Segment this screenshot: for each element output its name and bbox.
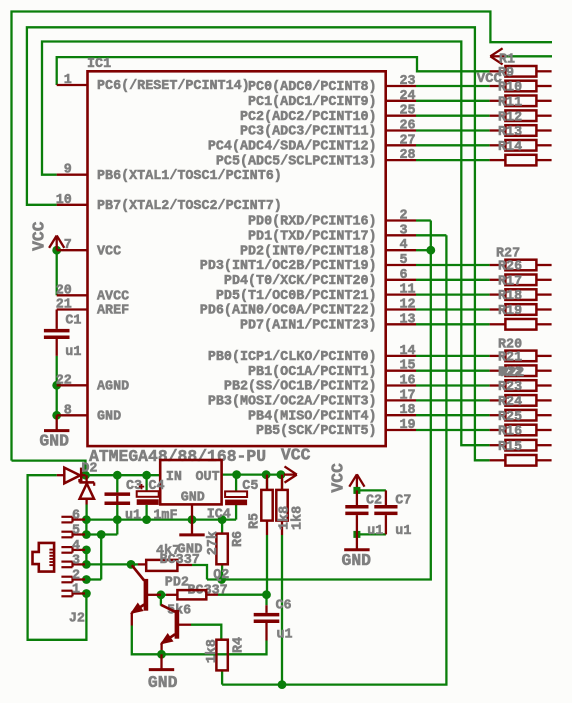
svg-text:25: 25 xyxy=(400,104,416,119)
svg-text:PB1(OC1A/PCINT1): PB1(OC1A/PCINT1) xyxy=(248,365,377,380)
svg-text:PB4(MISO/PCINT4): PB4(MISO/PCINT4) xyxy=(248,409,377,424)
junction GND pin8 xyxy=(52,411,61,420)
junction square bottom of C2 xyxy=(353,531,360,538)
wire 5k6 left lead xyxy=(166,594,177,596)
pin 12 PD6(AIN0/OC0A/PCINT22) stub xyxy=(200,298,416,319)
diode D2 horizontal xyxy=(57,468,86,484)
svg-text:15: 15 xyxy=(400,359,416,374)
svg-text:OUT: OUT xyxy=(196,470,220,485)
pin 15 PB1(OC1A/PCINT1) stub xyxy=(248,359,416,380)
svg-text:1k8: 1k8 xyxy=(205,639,220,663)
wire C4 lower lead to GND rail xyxy=(145,505,147,520)
svg-text:18: 18 xyxy=(400,403,416,418)
svg-text:R21: R21 xyxy=(498,351,522,366)
J2 pin 6 xyxy=(61,509,85,524)
svg-text:Q2: Q2 xyxy=(213,568,229,583)
wire GND riser from J2 pin5 row up to GND rail xyxy=(116,520,118,535)
junction J2 pin1 xyxy=(82,589,91,598)
pin 14 PB0(ICP1/CLKO/PCINT0) stub xyxy=(208,344,416,365)
resistor R25 xyxy=(490,410,552,425)
wire pin10 net: nested loop to far-right lower resistor xyxy=(27,27,490,460)
svg-text:VCC: VCC xyxy=(281,445,311,464)
svg-text:2: 2 xyxy=(400,209,408,224)
junction Q1 emitter GND stub xyxy=(157,650,166,659)
svg-text:PC6(/RESET/PCINT14): PC6(/RESET/PCINT14) xyxy=(97,79,250,94)
wire C3 lower lead to GND rail xyxy=(116,505,118,520)
resistor R24 xyxy=(490,395,552,410)
svg-text:AGND: AGND xyxy=(97,380,129,395)
svg-text:AVCC: AVCC xyxy=(97,290,129,305)
svg-text:PD7(AIN1/PCINT23): PD7(AIN1/PCINT23) xyxy=(240,319,377,334)
svg-text:R6: R6 xyxy=(231,531,246,547)
junction Q2 collector node xyxy=(127,560,136,569)
wire pin 5 to resistor xyxy=(416,264,490,266)
svg-text:R24: R24 xyxy=(498,395,522,410)
wire pin9 net: nested loop to resistor R15 xyxy=(42,42,490,446)
junction INT0/RXD xyxy=(426,246,435,255)
resistor R (unlabeled bottom group) xyxy=(490,455,552,466)
wire resistor R5 upper lead from VCC rail xyxy=(266,475,268,490)
wire pin 15 to resistor xyxy=(416,370,490,372)
svg-text:R22: R22 xyxy=(500,366,524,381)
svg-text:GND: GND xyxy=(181,490,205,505)
wire Q1 emitter lead xyxy=(131,613,133,626)
pin 23 PC0(ADC0/PCINT8) stub xyxy=(248,74,416,95)
svg-text:C5: C5 xyxy=(242,479,258,494)
pin 22 AGND stub xyxy=(56,373,129,394)
pin 3 PD1(TXD/PCINT17) stub xyxy=(248,223,416,244)
svg-text:C7: C7 xyxy=(395,494,411,509)
pin 10 PB7(XTAL2/TOSC2/PCINT7) stub xyxy=(56,193,282,214)
ground below Q2 emitter xyxy=(149,654,174,669)
svg-text:9: 9 xyxy=(64,163,72,178)
svg-text:2: 2 xyxy=(72,569,80,584)
wire Q2 base node to 5k6 xyxy=(161,594,166,596)
resistor R (unlabeled mid group) xyxy=(490,319,552,330)
svg-text:IN: IN xyxy=(166,470,182,485)
svg-text:VCC: VCC xyxy=(477,71,503,87)
resistor R26 xyxy=(490,260,552,275)
svg-text:J2: J2 xyxy=(69,611,85,626)
wire R5 lower lead down to C6 node xyxy=(266,535,268,595)
resistor R22 xyxy=(490,365,552,380)
wire pin 24 to resistor xyxy=(416,100,490,102)
svg-text:IC1: IC1 xyxy=(87,57,111,72)
wire outer loop bottom: left rail to diode D2 cathode junction xyxy=(12,461,86,471)
svg-text:5: 5 xyxy=(400,253,408,268)
junction C4 input rail xyxy=(142,471,151,480)
wire R4 bottom lead to TXD bottom rail xyxy=(221,670,223,684)
pin 8 GND stub xyxy=(57,403,121,424)
junction C6 top node xyxy=(262,590,271,599)
svg-text:19: 19 xyxy=(400,418,416,433)
wire C5 lower lead to GND rail xyxy=(235,505,237,520)
resistor R6 xyxy=(216,534,227,565)
J2 pin 1 xyxy=(61,583,85,598)
svg-text:R5: R5 xyxy=(248,513,263,529)
pin 25 PC2(ADC2/PCINT10) stub xyxy=(240,104,416,125)
svg-text:u1: u1 xyxy=(65,345,81,360)
pin 26 PC3(ADC3/PCINT11) stub xyxy=(240,119,416,140)
wire C6 bottom lead xyxy=(265,623,267,641)
svg-text:PB0(ICP1/CLKO/PCINT0): PB0(ICP1/CLKO/PCINT0) xyxy=(208,350,377,365)
resistor R18 xyxy=(490,289,552,304)
svg-text:R19: R19 xyxy=(498,304,522,319)
wire zener lower lead to J2 pin6 junction xyxy=(85,505,87,520)
pin 6 PD4(T0/XCK/PCINT20) stub xyxy=(224,268,416,289)
svg-text:R13: R13 xyxy=(498,125,522,140)
VCC supply arrow at C2/C7 xyxy=(349,474,364,490)
svg-text:1k8: 1k8 xyxy=(291,506,306,530)
pin 1 PC6(/RESET/PCINT14) stub xyxy=(57,73,250,94)
pin 16 PB2(SS/OC1B/PCINT2) stub xyxy=(224,374,416,395)
svg-text:ATMEGA48/88/168-PU: ATMEGA48/88/168-PU xyxy=(89,447,266,466)
resistor R12 xyxy=(490,110,552,125)
resistor R (unlabeled top group) xyxy=(490,155,552,166)
svg-text:VCC: VCC xyxy=(30,221,49,251)
wire R5 bottom lead xyxy=(266,521,268,535)
wire resistor R3 upper lead from VCC rail xyxy=(281,475,283,490)
svg-text:VCC: VCC xyxy=(97,244,121,259)
wire VCC net at IC pin7 down to pin20 AVCC xyxy=(56,250,58,295)
pin 28 PC5(ADC5/SCLPCINT13) stub xyxy=(216,148,416,169)
junction J2 pin5 xyxy=(82,530,91,539)
pin 20 AVCC stub xyxy=(56,283,129,304)
svg-text:PB6(XTAL1/TOSC1/PCINT6): PB6(XTAL1/TOSC1/PCINT6) xyxy=(97,169,282,184)
wire C6 top lead green part xyxy=(265,595,267,606)
svg-text:24: 24 xyxy=(400,89,416,104)
ground below regulator xyxy=(179,520,204,535)
svg-text:27: 27 xyxy=(400,133,416,148)
svg-text:VCC: VCC xyxy=(329,463,348,493)
svg-text:27k: 27k xyxy=(206,531,221,555)
svg-text:26: 26 xyxy=(400,119,416,134)
junction Q2 base node xyxy=(157,590,166,599)
wire C1 bottom lead xyxy=(56,339,58,356)
capacitor C7 xyxy=(374,505,397,515)
svg-text:R17: R17 xyxy=(498,274,522,289)
J2 pin 3 xyxy=(61,553,85,568)
svg-text:u1: u1 xyxy=(367,524,383,539)
junction J2 pin6 xyxy=(82,515,91,524)
svg-text:PD4(T0/XCK/PCINT20): PD4(T0/XCK/PCINT20) xyxy=(224,274,377,289)
svg-text:R16: R16 xyxy=(498,425,522,440)
wire VCC block cap link bottom xyxy=(357,533,386,535)
resistor R11 xyxy=(490,95,552,110)
resistor R2 5k6 horizontal xyxy=(177,590,206,599)
svg-text:R4: R4 xyxy=(232,637,247,653)
wire Q2 emitter lead down to rail xyxy=(160,643,162,655)
svg-text:C6: C6 xyxy=(276,599,292,614)
junction C3 input rail xyxy=(113,471,122,480)
junction C5 VCC rail xyxy=(232,470,241,479)
svg-text:PD0(RXD/PCINT16): PD0(RXD/PCINT16) xyxy=(248,215,377,230)
wire Q1 emitter rail to C6 bottom xyxy=(132,626,267,655)
wire Q2 base node down to Q1 collector xyxy=(160,595,162,606)
pin 19 PB5(SCK/PCINT5) stub xyxy=(256,418,416,439)
connector J2 teeth xyxy=(49,550,53,566)
svg-text:10: 10 xyxy=(56,193,72,208)
svg-text:PC1(ADC1/PCINT9): PC1(ADC1/PCINT9) xyxy=(248,95,377,110)
resistor R13 xyxy=(490,125,552,140)
wire 5k6 resistor to C6 node xyxy=(218,594,267,596)
svg-text:1: 1 xyxy=(72,583,80,598)
wire C2 bottom lead xyxy=(356,515,358,534)
wire pin 17 to resistor xyxy=(416,399,490,401)
svg-text:PB7(XTAL2/TOSC2/PCINT7): PB7(XTAL2/TOSC2/PCINT7) xyxy=(97,199,282,214)
wire J2 pin3 net to transistor Q2 collector node xyxy=(86,563,131,565)
svg-text:R25: R25 xyxy=(498,410,522,425)
resistor R4 xyxy=(216,640,227,671)
wire base resistor to RXD rail elbow xyxy=(192,565,207,580)
svg-text:1mF: 1mF xyxy=(153,508,177,523)
resistor R7 4k7 horizontal xyxy=(146,560,177,571)
svg-text:28: 28 xyxy=(400,148,416,163)
wire C2 top lead xyxy=(356,490,358,505)
svg-text:PC4(ADC4/SDA/PCINT12): PC4(ADC4/SDA/PCINT12) xyxy=(208,140,377,155)
resistor R21 xyxy=(490,351,552,366)
pin 17 PB3(MOSI/OC2A/PCINT3) stub xyxy=(208,388,416,409)
transistor Q2 BC337 lower xyxy=(161,605,191,644)
wire pin 27 to resistor xyxy=(416,144,490,146)
wire pin 6 to resistor xyxy=(416,279,490,281)
svg-text:4: 4 xyxy=(72,539,80,554)
wire pin 28 to resistor xyxy=(416,159,490,161)
svg-text:R11: R11 xyxy=(498,95,522,110)
wire R3 top lead xyxy=(281,475,283,490)
wire Q2 base resistor R4 riser xyxy=(191,625,221,640)
wire pin 13 to resistor xyxy=(416,323,490,325)
svg-text:R12: R12 xyxy=(498,110,522,125)
svg-text:PB3(MOSI/OC2A/PCINT3): PB3(MOSI/OC2A/PCINT3) xyxy=(208,395,377,410)
svg-text:PD2(INT0/PCINT18): PD2(INT0/PCINT18) xyxy=(240,244,377,259)
junction J2 pin2 xyxy=(82,575,91,584)
pin 5 PD3(INT1/OC2B/PCINT19) stub xyxy=(200,253,416,274)
pin 21 AREF stub xyxy=(56,298,129,319)
wire INT0 pin4 junction to RXD riser xyxy=(416,249,431,251)
pin 13 PD7(AIN1/PCINT23) stub xyxy=(240,312,416,333)
wire regulator output VCC rail xyxy=(222,473,284,475)
wire pin 19 to resistor xyxy=(416,429,490,431)
wire 100n cap C3 upper lead xyxy=(116,475,118,492)
junction square top of C2 xyxy=(353,487,360,494)
svg-text:14: 14 xyxy=(400,344,416,359)
transistor Q1 BC337 xyxy=(132,565,161,613)
junction AGND pin22 xyxy=(52,381,61,390)
svg-text:PB5(SCK/PCINT5): PB5(SCK/PCINT5) xyxy=(256,424,377,439)
wire pin 26 to resistor xyxy=(416,129,490,131)
wire VCC stub top right xyxy=(503,55,552,57)
pin 24 PC1(ADC1/PCINT9) stub xyxy=(248,89,416,110)
wire R5 top lead xyxy=(266,475,268,490)
wire RXD rail from IC pin2 down and across xyxy=(207,221,431,580)
svg-text:6: 6 xyxy=(400,268,408,283)
svg-text:6: 6 xyxy=(72,509,80,524)
svg-text:R14: R14 xyxy=(498,140,522,155)
junction R6 GND rail xyxy=(218,515,227,524)
capacitor C5 (polarized) xyxy=(225,491,247,505)
svg-text:23: 23 xyxy=(400,74,416,89)
svg-text:R18: R18 xyxy=(498,289,522,304)
wire AREF pin21 lead down to C1 xyxy=(56,310,58,329)
capacitor C3 xyxy=(105,492,131,505)
wire pin 23 to resistor xyxy=(416,85,490,87)
wire R3 bottom lead xyxy=(281,521,283,535)
VCC supply arrow right of regulator (points right) xyxy=(284,466,297,482)
svg-text:22: 22 xyxy=(56,373,72,388)
wire pin 12 to resistor xyxy=(416,308,490,310)
svg-text:8: 8 xyxy=(64,403,72,418)
svg-text:C4: C4 xyxy=(149,479,165,494)
svg-text:R1: R1 xyxy=(499,52,515,67)
resistor R16 xyxy=(490,425,552,440)
wire J2 pin1 net loop to diode D2 anode xyxy=(28,475,87,640)
wire C6 top lead xyxy=(265,605,267,613)
svg-text:PC5(ADC5/SCLPCINT13): PC5(ADC5/SCLPCINT13) xyxy=(216,154,377,169)
svg-text:3: 3 xyxy=(400,223,408,238)
wire 5k6 right lead xyxy=(206,594,218,596)
junction regulator GND rail xyxy=(188,515,197,524)
pin 4 PD2(INT0/PCINT18) stub xyxy=(240,238,416,259)
svg-text:IC4: IC4 xyxy=(207,508,231,523)
wire J2 pin2 row to GND drop xyxy=(86,578,101,580)
VCC supply arrow at pin7 xyxy=(49,236,64,251)
resistor R19 xyxy=(490,304,552,319)
wire C1 lower lead to AGND pin22 and GND pin8 xyxy=(56,356,58,415)
svg-text:PD6(AIN0/OC0A/PCINT22): PD6(AIN0/OC0A/PCINT22) xyxy=(200,304,377,319)
junction diode D2 cathode xyxy=(81,471,90,480)
junction J2 pin3 xyxy=(82,560,91,569)
wire pin1 /RESET net to pull-up resistor R9 xyxy=(57,57,490,85)
svg-text:AREF: AREF xyxy=(97,304,129,319)
pin 7 VCC stub xyxy=(57,238,121,259)
zener diode vertical xyxy=(79,475,94,504)
resistor R9 xyxy=(490,66,552,81)
pin 18 PB4(MISO/PCINT4) stub xyxy=(248,403,416,424)
wire Q2 collector node to base resistor xyxy=(131,563,138,565)
svg-text:12: 12 xyxy=(400,298,416,313)
svg-text:GND: GND xyxy=(97,410,121,425)
svg-text:u1: u1 xyxy=(125,508,141,523)
svg-text:PD2: PD2 xyxy=(165,575,189,590)
svg-text:R23: R23 xyxy=(498,380,522,395)
svg-text:GND: GND xyxy=(148,673,178,692)
wire pin2 stub to RXD riser xyxy=(416,219,431,221)
svg-text:7: 7 xyxy=(64,238,72,253)
wire C4 upper lead xyxy=(145,475,147,491)
wire C3 plates leads xyxy=(116,496,118,502)
J2 pin 4 xyxy=(61,539,85,554)
junction R6 on RXD rail xyxy=(217,575,226,584)
junction R3 VCC rail xyxy=(277,470,286,479)
wire regulator GND pin down xyxy=(191,504,193,519)
ground below C2/C7 xyxy=(344,534,369,549)
pin 11 PD5(T1/OC0B/PCINT21) stub xyxy=(216,283,416,304)
svg-text:PC0(ADC0/PCINT8): PC0(ADC0/PCINT8) xyxy=(248,80,377,95)
wire pin 11 to resistor xyxy=(416,293,490,295)
resistor R3 xyxy=(276,490,287,521)
VCC supply arrow top right xyxy=(490,48,506,64)
capacitor C4 (polarized) xyxy=(137,491,159,505)
svg-text:PB2(SS/OC1B/PCINT2): PB2(SS/OC1B/PCINT2) xyxy=(224,380,377,395)
svg-text:1: 1 xyxy=(64,73,72,88)
wire pin 25 to resistor xyxy=(416,115,490,117)
J2 pin 5 xyxy=(61,524,85,539)
junction J2 pin4 xyxy=(82,546,91,555)
wire 4k7 right lead xyxy=(177,564,192,566)
wire J2 pin5 row to GND riser xyxy=(86,533,117,535)
pin 2 PD0(RXD/PCINT16) stub xyxy=(248,209,416,230)
wire GND drop from pin5 row to pin2 row xyxy=(100,535,102,580)
voltage regulator IC4 box xyxy=(160,460,221,504)
wire C5 upper lead xyxy=(235,475,237,492)
svg-text:5: 5 xyxy=(72,524,80,539)
svg-text:PD3(INT1/OC2B/PCINT19): PD3(INT1/OC2B/PCINT19) xyxy=(200,259,377,274)
resistor R17 xyxy=(490,274,552,289)
wire pin 14 to resistor xyxy=(416,355,490,357)
wire R3 lower lead down to bottom TXD rail xyxy=(281,535,283,685)
svg-text:u1: u1 xyxy=(277,628,293,643)
svg-text:GND: GND xyxy=(39,431,69,450)
wire VCC block cap link top xyxy=(357,489,386,491)
svg-text:PD5(T1/OC0B/PCINT21): PD5(T1/OC0B/PCINT21) xyxy=(216,289,377,304)
svg-text:PC2(ADC2/PCINT10): PC2(ADC2/PCINT10) xyxy=(240,110,377,125)
svg-text:21: 21 xyxy=(56,298,72,313)
svg-text:R15: R15 xyxy=(498,440,522,455)
svg-text:20: 20 xyxy=(56,283,72,298)
junction GND drop pin5 row xyxy=(97,530,106,539)
svg-text:13: 13 xyxy=(400,312,416,327)
junction R5 VCC rail xyxy=(262,470,271,479)
wire pin 18 to resistor xyxy=(416,414,490,416)
resistor R23 xyxy=(490,380,552,395)
wire R6 upper lead from GND rail xyxy=(221,520,223,534)
svg-text:PD1(TXD/PCINT17): PD1(TXD/PCINT17) xyxy=(248,230,377,245)
resistor R5 xyxy=(261,490,272,521)
junction R3 on TXD bottom rail xyxy=(278,680,287,689)
wire regulator input rail from diode junction xyxy=(86,474,161,476)
wire 4k7 left lead xyxy=(138,563,146,565)
wire C7 bottom lead xyxy=(385,515,387,534)
pin 9 PB6(XTAL1/TOSC1/PCINT6) stub xyxy=(57,163,282,184)
junction C3 GND rail xyxy=(113,515,122,524)
wire C7 top lead xyxy=(385,490,387,505)
wire outer loop: IC1 pin1-area net top rail to top-right corner xyxy=(12,12,553,461)
svg-text:16: 16 xyxy=(400,374,416,389)
svg-text:GND: GND xyxy=(342,551,372,570)
junction VCC at pin7 xyxy=(52,246,61,255)
wire R6 lower lead to RXD rail xyxy=(221,564,223,579)
svg-text:u1: u1 xyxy=(395,524,411,539)
ground below pin8 xyxy=(44,415,69,430)
plus mark of C4 xyxy=(139,484,144,489)
J2 pin 2 xyxy=(61,569,85,584)
resistor R10 xyxy=(490,81,552,96)
svg-text:4: 4 xyxy=(400,238,408,253)
svg-text:BC337: BC337 xyxy=(160,553,200,568)
resistor R14 xyxy=(490,140,552,155)
resistor R15 xyxy=(490,440,552,455)
wire J2 pin6 to pin5 xyxy=(85,520,87,535)
svg-text:D2: D2 xyxy=(81,462,97,477)
pin 27 PC4(ADC4/SDA/PCINT12) stub xyxy=(208,133,416,154)
svg-text:3: 3 xyxy=(72,553,80,568)
wire pin 16 to resistor xyxy=(416,384,490,386)
junction C4 GND rail xyxy=(142,515,151,524)
capacitor C6 xyxy=(254,613,280,623)
wire TXD rail from IC pin3 down and across bottom xyxy=(222,235,446,684)
svg-text:C2: C2 xyxy=(366,494,382,509)
